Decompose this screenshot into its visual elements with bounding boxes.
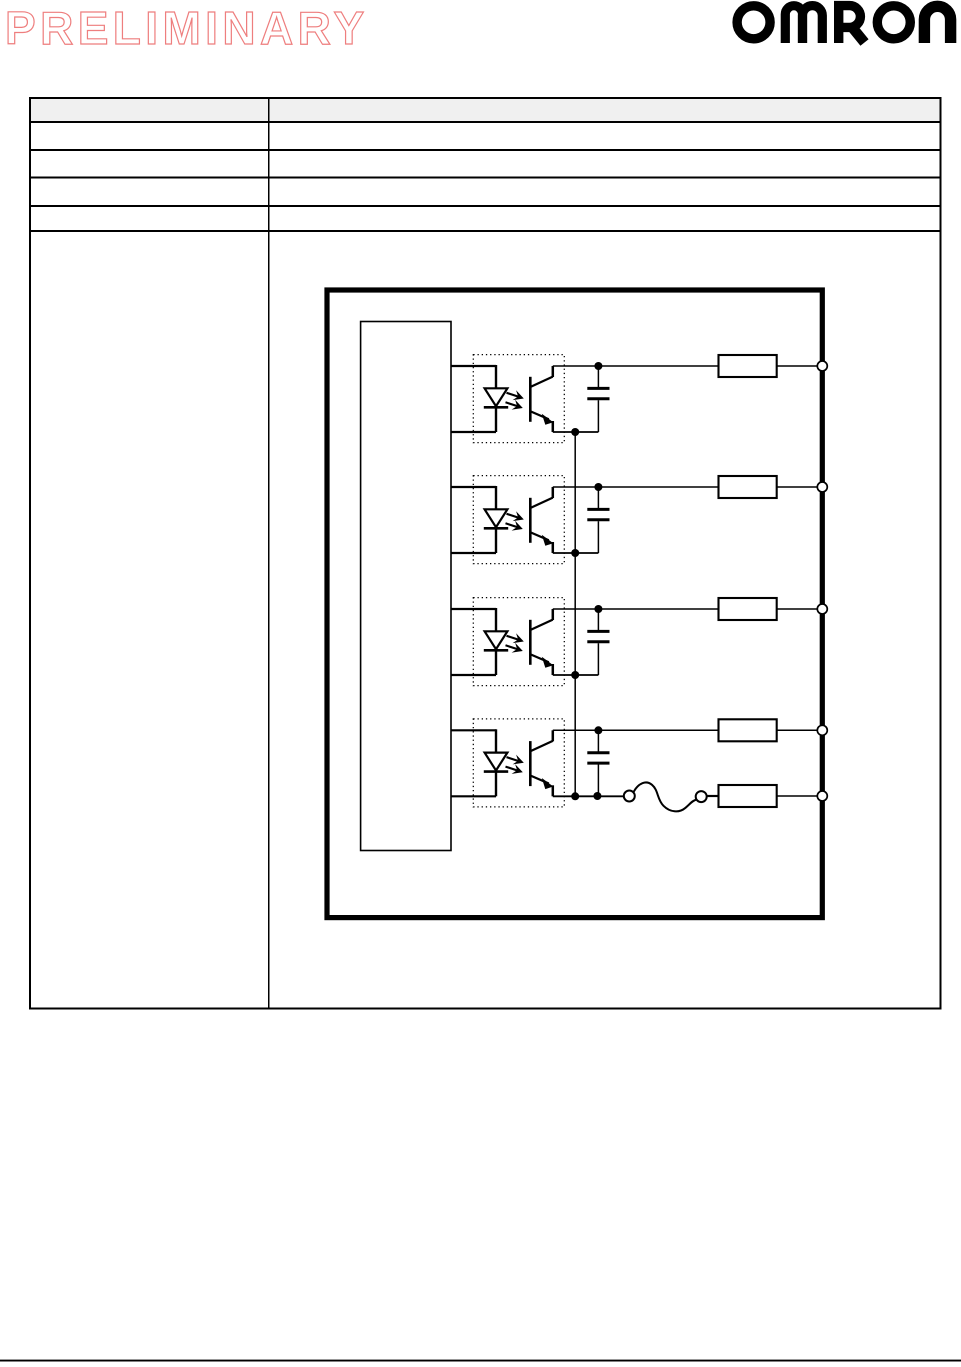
wire: Q2 emitter lead [552,542,555,553]
wire: LED1 cathode to block [451,431,496,433]
wire: bottom rail 1 [553,431,599,433]
wire: R1 to terminal [777,365,817,367]
terminal T5 [817,791,827,801]
wire: LED4 cathode to block [451,795,496,797]
wire: block to LED4 anode [451,729,496,731]
light arrows PC4 [506,755,524,774]
junction node 3b [571,671,579,679]
wire: R3 to terminal [777,608,817,610]
resistor R4 [719,719,777,741]
junction node 3a [594,605,602,613]
phototransistor Q1 [530,377,553,425]
wire: Q1 collector lead [552,366,555,377]
photocoupler PC4 dotted box [473,719,564,807]
junction node 1a [594,362,602,370]
wire: Q1 emitter lead [552,421,555,432]
resistor R3 [719,598,777,620]
terminal T1 [817,361,827,371]
LED D2 [484,509,508,528]
thermal element squiggle [634,782,697,811]
wire: LED3 anode lead [495,608,497,632]
wire: top rail 3 [553,608,719,610]
emitter bus wire [574,432,576,796]
wire: Q4 collector lead [552,730,555,741]
case outline (thick frame) [327,290,822,918]
wire: LED1 cathode lead [495,407,497,432]
table [30,98,941,1009]
capacitor C3 [587,609,609,675]
light arrows PC3 [506,633,524,652]
wire: LED3 cathode lead [495,650,497,675]
photocoupler PC2 dotted box [473,476,564,564]
wire: block to LED3 anode [451,608,496,610]
wire: bottom rail 3 [553,674,599,676]
wire: block to LED1 anode [451,365,496,367]
junction node 4b [571,792,579,800]
wire: top rail 4 [553,729,719,731]
photocoupler PC1 dotted box [473,355,564,443]
wire: bottom rail 2 [553,552,599,554]
wire: R2 to terminal [777,486,817,488]
fuse circle right [696,791,707,802]
junction node 4a [594,726,602,734]
terminal T4 [817,725,827,735]
wire: bottom rail 4 [553,795,623,797]
phototransistor Q3 [530,620,553,668]
wire: top rail 2 [553,486,719,488]
LED D1 [484,388,508,407]
junction node 2a [594,483,602,491]
phototransistor Q2 [530,498,553,546]
footer rule [0,1360,961,1362]
svg-text:PRELIMINARY: PRELIMINARY [5,2,369,54]
junction node 4c [593,792,601,800]
wire: top rail 1 [553,365,719,367]
wire: LED2 cathode to block [451,552,496,554]
terminal T2 [817,482,827,492]
wire: LED2 anode lead [495,486,497,510]
capacitor C1 [587,366,609,432]
light arrows PC1 [506,390,524,409]
wire: LED4 anode lead [495,729,497,753]
LED D3 [484,631,508,650]
wire: LED3 cathode to block [451,674,496,676]
wire: Q2 collector lead [552,487,555,498]
wire: block to LED2 anode [451,486,496,488]
resistor R1 [719,355,777,377]
resistor R5 [719,785,777,807]
phototransistor Q4 [530,741,553,789]
junction node 1b [571,428,579,436]
light arrows PC2 [506,511,524,530]
wire: R4 to terminal [777,729,817,731]
resistor R2 [719,476,777,498]
terminal T3 [817,604,827,614]
wire: Q4 emitter lead [552,785,555,796]
wire: Q3 emitter lead [552,664,555,675]
junction node 2b [571,549,579,557]
wire: LED1 anode lead [495,365,497,389]
wire: Q3 collector lead [552,609,555,620]
photocoupler PC3 dotted box [473,598,564,686]
OMRON logo [737,6,951,43]
internal circuit block U1 [361,322,451,851]
wire: LED2 cathode lead [495,528,497,553]
wire: fuse to R5 [708,795,719,797]
LED D4 [484,753,508,772]
fuse circle left [624,791,635,802]
capacitor C2 [587,487,609,553]
wire: LED4 cathode lead [495,772,497,797]
wire: R5 to terminal [777,795,817,797]
capacitor C4 [587,730,609,796]
